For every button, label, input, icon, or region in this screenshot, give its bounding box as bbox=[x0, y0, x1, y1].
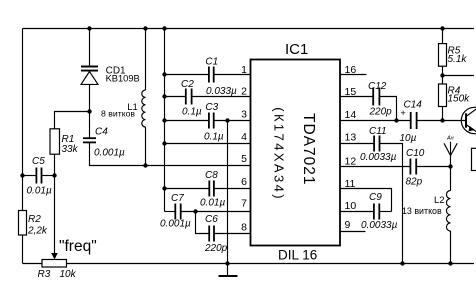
svg-text:C8: C8 bbox=[205, 170, 218, 181]
svg-text:5.1k: 5.1k bbox=[448, 54, 468, 65]
svg-text:220p: 220p bbox=[204, 243, 228, 254]
svg-text:Ан: Ан bbox=[446, 136, 454, 142]
svg-text:1: 1 bbox=[241, 64, 247, 76]
svg-text:0.1µ: 0.1µ bbox=[204, 132, 224, 143]
svg-text:C7: C7 bbox=[171, 193, 184, 204]
svg-text:0.01µ: 0.01µ bbox=[27, 186, 52, 197]
svg-text:150k: 150k bbox=[448, 94, 471, 105]
svg-text:10: 10 bbox=[345, 200, 357, 212]
svg-text:R3: R3 bbox=[38, 269, 51, 280]
svg-text:0.033µ: 0.033µ bbox=[206, 86, 237, 97]
svg-text:C9: C9 bbox=[369, 192, 382, 203]
svg-text:0.1µ: 0.1µ bbox=[182, 107, 202, 118]
svg-text:12: 12 bbox=[345, 156, 357, 168]
svg-text:C3: C3 bbox=[205, 102, 218, 113]
svg-text:4: 4 bbox=[241, 131, 247, 143]
svg-text:C6: C6 bbox=[205, 214, 218, 225]
svg-text:10µ: 10µ bbox=[400, 133, 417, 144]
svg-text:(К174ХА34): (К174ХА34) bbox=[272, 107, 287, 201]
svg-text:C5: C5 bbox=[32, 156, 45, 167]
svg-text:3: 3 bbox=[241, 109, 247, 121]
svg-text:7: 7 bbox=[241, 198, 247, 210]
svg-text:14: 14 bbox=[345, 109, 357, 121]
svg-text:IC1: IC1 bbox=[285, 41, 308, 58]
svg-text:C14: C14 bbox=[404, 100, 423, 111]
svg-text:0.001µ: 0.001µ bbox=[94, 148, 125, 159]
svg-text:5: 5 bbox=[241, 153, 247, 165]
svg-text:C2: C2 bbox=[181, 79, 194, 90]
svg-text:16: 16 bbox=[345, 64, 357, 76]
svg-text:6: 6 bbox=[241, 176, 247, 188]
svg-text:C1: C1 bbox=[205, 57, 218, 68]
svg-text:0.01µ: 0.01µ bbox=[200, 198, 225, 209]
svg-text:11: 11 bbox=[345, 178, 356, 190]
svg-text:2,2k: 2,2k bbox=[27, 226, 48, 237]
svg-text:2: 2 bbox=[241, 86, 247, 98]
svg-text:15: 15 bbox=[345, 86, 357, 98]
svg-text:R2: R2 bbox=[28, 214, 41, 225]
svg-text:0.0033µ: 0.0033µ bbox=[360, 152, 397, 163]
svg-text:"freq": "freq" bbox=[59, 238, 97, 255]
svg-text:13 витков: 13 витков bbox=[402, 206, 442, 216]
svg-text:13: 13 bbox=[345, 132, 357, 144]
svg-text:C11: C11 bbox=[369, 126, 387, 137]
svg-text:8: 8 bbox=[241, 222, 247, 234]
svg-text:C12: C12 bbox=[368, 81, 387, 92]
svg-text:L2: L2 bbox=[434, 195, 445, 206]
svg-text:DIL 16: DIL 16 bbox=[278, 248, 317, 263]
svg-text:C4: C4 bbox=[95, 127, 108, 138]
svg-text:10k: 10k bbox=[60, 269, 77, 280]
svg-text:TDA7021: TDA7021 bbox=[300, 113, 317, 185]
svg-text:C10: C10 bbox=[406, 148, 425, 159]
svg-text:0.001µ: 0.001µ bbox=[160, 219, 191, 230]
svg-text:82p: 82p bbox=[406, 177, 423, 188]
svg-text:9: 9 bbox=[345, 219, 351, 231]
svg-text:0.0033µ: 0.0033µ bbox=[361, 220, 398, 231]
svg-text:KB109B: KB109B bbox=[106, 74, 140, 84]
svg-text:33k: 33k bbox=[62, 144, 79, 155]
svg-text:220p: 220p bbox=[369, 107, 393, 118]
svg-text:8 витков: 8 витков bbox=[101, 109, 135, 119]
svg-text:+: + bbox=[401, 108, 406, 118]
